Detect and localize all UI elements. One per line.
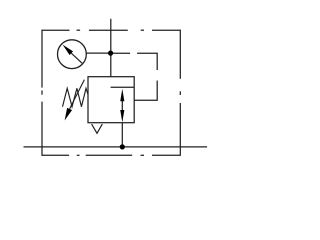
wire: gauge stem to outlet line [86, 52, 110, 54]
pilot sensing line (dashed) down into regulator right side [134, 81, 157, 101]
adjustment spring (zigzag) [63, 88, 89, 106]
assembly enclosure right edge [179, 30, 181, 156]
wire: bottom port of regulator to supply line [121, 123, 123, 147]
spring adjustment arrow [65, 80, 85, 121]
assembly enclosure (dash-dot boundary) top edge [42, 29, 180, 31]
wire: main supply line (bottom) [24, 146, 208, 148]
gauge needle [63, 45, 83, 64]
junction node: regulator inlet on supply line [120, 144, 125, 149]
assembly enclosure left edge [41, 30, 43, 156]
wire: outlet line (top port) [110, 19, 112, 77]
regulator valve body U1 [88, 77, 134, 123]
seat line inside regulator [111, 86, 135, 88]
junction node: gauge tap on outlet line [108, 51, 113, 56]
pressure gauge G1 [58, 40, 87, 69]
relief vent triangle [92, 124, 103, 133]
assembly enclosure bottom edge [42, 154, 181, 156]
pilot sensing line (dashed) horizontal from gauge tap [113, 53, 157, 70]
variable-orifice double arrow inside regulator [120, 89, 124, 123]
